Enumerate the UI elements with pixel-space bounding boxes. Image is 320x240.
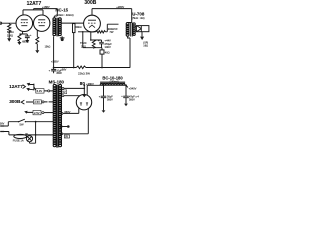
- svg-text:PL: PL: [25, 132, 29, 136]
- svg-text:80: 80: [80, 81, 86, 86]
- svg-text:+340V: +340V: [129, 87, 137, 91]
- svg-text:100V: 100V: [0, 123, 5, 126]
- svg-text:30kΩ: 30kΩ: [75, 25, 81, 29]
- svg-text:+44V: +44V: [105, 39, 112, 43]
- svg-text:7W: 7W: [109, 30, 113, 34]
- svg-text:+: +: [49, 70, 51, 73]
- svg-text:(5kΩ : 4Ω): (5kΩ : 4Ω): [132, 16, 144, 20]
- svg-text:22kΩ 3W: 22kΩ 3W: [78, 71, 90, 75]
- svg-text:NC-15: NC-15: [55, 8, 68, 13]
- svg-text:300B: 300B: [9, 99, 21, 104]
- svg-text:(10kΩ : 40kΩ): (10kΩ : 40kΩ): [56, 13, 74, 17]
- svg-text:40Ω: 40Ω: [105, 51, 110, 55]
- svg-text:16Ω: 16Ω: [143, 44, 148, 48]
- svg-text:+: +: [99, 96, 101, 99]
- svg-text:FUSE 1A: FUSE 1A: [13, 138, 24, 142]
- svg-text:2.5V: 2.5V: [34, 100, 40, 104]
- svg-text:1MΩ: 1MΩ: [7, 33, 14, 37]
- svg-text:500V: 500V: [107, 99, 113, 102]
- svg-text:+280V: +280V: [116, 5, 124, 9]
- svg-text:MS-180: MS-180: [49, 80, 65, 85]
- svg-text:+285V: +285V: [51, 59, 59, 63]
- svg-text:6.3V: 6.3V: [37, 89, 43, 93]
- svg-text:0V: 0V: [65, 137, 68, 139]
- svg-text:+188V: +188V: [42, 5, 50, 9]
- svg-text:12AT7: 12AT7: [9, 84, 23, 89]
- svg-text:98V: 98V: [62, 67, 67, 71]
- svg-text:5V: 5V: [62, 90, 65, 94]
- svg-text:100V: 100V: [105, 45, 111, 49]
- svg-text:15kΩ: 15kΩ: [45, 46, 51, 49]
- svg-text:SW: SW: [19, 122, 24, 126]
- svg-text:2.5V: 2.5V: [34, 111, 40, 115]
- svg-text:360V: 360V: [64, 110, 70, 114]
- svg-text:450V: 450V: [56, 72, 62, 75]
- svg-text:+: +: [121, 95, 123, 98]
- svg-text:500V: 500V: [129, 99, 135, 102]
- svg-text:680Ω: 680Ω: [22, 40, 29, 44]
- svg-text:20Ω: 20Ω: [81, 44, 86, 48]
- svg-text:12AT7: 12AT7: [27, 1, 42, 7]
- svg-text:(180mA): (180mA): [110, 80, 119, 83]
- svg-text:300B: 300B: [84, 0, 96, 6]
- svg-text:TK20: TK20: [80, 41, 87, 45]
- svg-text:+: +: [30, 34, 32, 37]
- svg-text:U-708: U-708: [132, 12, 145, 17]
- svg-text:+380V: +380V: [86, 82, 94, 86]
